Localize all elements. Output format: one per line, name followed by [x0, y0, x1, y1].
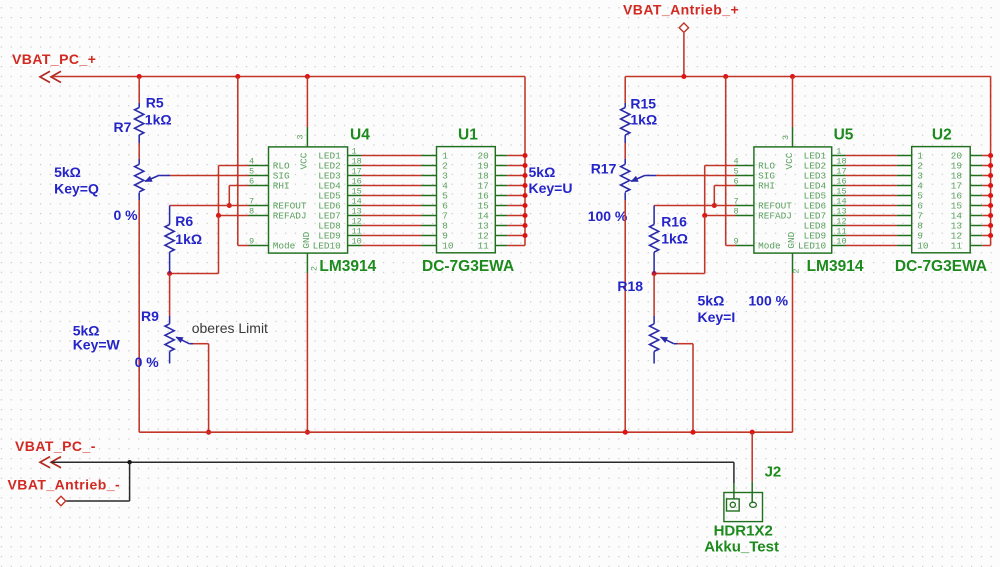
resistor R15 — [624, 103, 626, 108]
junction R5 top — [137, 74, 142, 79]
svg-text:10: 10 — [352, 237, 362, 247]
wires U1 to right bus — [507, 155, 525, 157]
svg-text:GND: GND — [786, 231, 797, 248]
R17 wiper — [631, 176, 644, 182]
wires U2 to right edge bus — [982, 155, 990, 157]
svg-text:Mode: Mode — [273, 241, 296, 252]
svg-text:Key=W: Key=W — [73, 337, 121, 353]
svg-text:3: 3 — [296, 134, 306, 139]
wire VBAT_Antrieb_+ drop — [683, 33, 685, 77]
wire RLO-REFADJ vertical right — [704, 166, 706, 216]
wire rail to R15 — [624, 77, 626, 104]
wire SIG net right — [656, 175, 736, 177]
wire rail to R5 — [138, 77, 140, 104]
svg-text:R9: R9 — [141, 308, 159, 324]
wire R9 wiper to bus — [193, 343, 209, 345]
svg-text:10: 10 — [442, 241, 454, 252]
wire U2 right bus — [990, 77, 992, 246]
svg-text:2: 2 — [792, 268, 802, 273]
J2 pin 1 stub — [733, 483, 735, 499]
display U1 box — [437, 147, 496, 253]
R7 wiper — [145, 176, 158, 182]
bottom bus wire — [139, 431, 792, 433]
svg-text:8: 8 — [734, 207, 739, 217]
svg-text:16: 16 — [352, 177, 362, 187]
potentiometer R7 — [138, 159, 140, 164]
svg-text:4: 4 — [734, 157, 739, 167]
U2 left pin stubs — [897, 155, 912, 157]
wire RHI-REFOUT vertical right — [713, 186, 715, 206]
R9 wiper — [176, 337, 189, 344]
svg-text:R6: R6 — [175, 213, 193, 229]
wire R16 to R18 — [653, 274, 655, 317]
junction Antrieb drop — [681, 74, 686, 79]
junction R9 wiper at bus — [206, 430, 211, 435]
svg-text:4: 4 — [249, 157, 254, 167]
svg-text:15: 15 — [836, 187, 846, 197]
J2 pin2 pad — [750, 502, 757, 507]
wire R5 to R7 — [138, 143, 140, 159]
svg-text:R18: R18 — [617, 278, 643, 294]
wire RLO to REFADJ vertical — [218, 166, 220, 216]
wire VBAT_PC_- black — [51, 461, 734, 463]
svg-text:VBAT_Antrieb_-: VBAT_Antrieb_- — [8, 477, 121, 493]
wire REFOUT net — [170, 205, 249, 207]
wire R18 wiper to bus — [678, 343, 694, 345]
wire SIG net — [170, 175, 249, 177]
svg-text:R5: R5 — [146, 95, 164, 111]
wire RLO net right — [705, 165, 736, 167]
svg-text:17: 17 — [836, 167, 846, 177]
svg-text:VBAT_PC_-: VBAT_PC_- — [15, 438, 96, 454]
svg-text:9: 9 — [734, 237, 739, 247]
U5 VCC pin stub — [792, 77, 794, 128]
svg-text:8: 8 — [249, 207, 254, 217]
svg-text:5: 5 — [734, 167, 739, 177]
svg-text:7: 7 — [249, 197, 254, 207]
svg-text:J2: J2 — [765, 463, 782, 480]
svg-text:5kΩ: 5kΩ — [54, 164, 81, 180]
wire RHI net horizontal — [229, 185, 248, 187]
svg-text:U1: U1 — [458, 127, 478, 144]
svg-text:R17: R17 — [591, 161, 617, 177]
svg-text:1: 1 — [836, 147, 841, 157]
svg-text:1: 1 — [352, 147, 357, 157]
svg-text:5kΩ: 5kΩ — [529, 164, 556, 180]
svg-text:16: 16 — [836, 177, 846, 187]
wire rail to Mode right — [725, 77, 727, 246]
junction VCC branch left — [305, 74, 310, 79]
svg-text:12: 12 — [836, 217, 846, 227]
svg-text:15: 15 — [352, 187, 362, 197]
wire REFADJ net horizontal — [219, 215, 249, 217]
U4 GND pin stub — [306, 253, 308, 273]
svg-text:10: 10 — [836, 237, 846, 247]
wire VBAT_PC_+ top rail — [51, 76, 525, 78]
junction RLO-REFADJ — [216, 213, 221, 218]
wires U4 to U1 — [362, 155, 422, 157]
svg-text:5: 5 — [249, 167, 254, 177]
svg-text:0 %: 0 % — [114, 207, 139, 223]
svg-text:3: 3 — [781, 135, 791, 140]
svg-text:14: 14 — [836, 197, 846, 207]
junction RLO-REFADJ right — [702, 213, 707, 218]
op-amp U5 LM3914 box — [754, 147, 832, 253]
resistor R6 — [169, 206, 171, 225]
svg-text:Key=I: Key=I — [698, 309, 736, 325]
svg-text:U2: U2 — [932, 127, 952, 144]
off-page connector VBAT_Antrieb_+ — [679, 23, 688, 32]
U4 VCC pin stub — [306, 77, 308, 128]
wire R7 bottom to bottom bus — [138, 200, 140, 432]
wire R6 bottom to R9 — [169, 274, 171, 317]
junction RHI-REFOUT right — [712, 203, 717, 208]
svg-text:17: 17 — [352, 167, 362, 177]
junction RHI-REFOUT — [227, 203, 232, 208]
J2 pin1 circle — [730, 502, 735, 507]
svg-text:R15: R15 — [630, 96, 656, 112]
svg-text:7: 7 — [734, 197, 739, 207]
svg-text:13: 13 — [836, 207, 846, 217]
potentiometer R18 — [653, 316, 655, 324]
svg-text:100 %: 100 % — [748, 293, 788, 309]
svg-text:R7: R7 — [114, 119, 132, 135]
svg-text:GND: GND — [301, 231, 312, 248]
U1 left pin stubs — [422, 155, 437, 157]
U4 left pin stubs — [249, 165, 269, 167]
R18 wiper — [661, 337, 674, 344]
op-amp U4 LM3914 box — [269, 147, 348, 253]
off-page connector VBAT_PC_+ — [40, 71, 50, 82]
svg-text:11: 11 — [352, 227, 362, 237]
resistor R16 — [653, 206, 655, 225]
junction Mode branch right — [723, 74, 728, 79]
wire RHI net right — [714, 185, 735, 187]
svg-text:18: 18 — [836, 157, 846, 167]
junction VCC branch right — [790, 74, 795, 79]
junction Mode branch left — [235, 74, 240, 79]
wire VBAT_Antrieb_+ rail — [625, 76, 990, 78]
svg-text:U4: U4 — [350, 127, 370, 144]
svg-text:11: 11 — [478, 241, 490, 252]
svg-text:0 %: 0 % — [135, 354, 160, 370]
svg-text:VBAT_Antrieb_+: VBAT_Antrieb_+ — [623, 1, 739, 17]
svg-text:Akku_Test: Akku_Test — [704, 539, 779, 556]
svg-text:1kΩ: 1kΩ — [630, 112, 657, 128]
wire RLO net horizontal — [219, 165, 249, 167]
wire R17 bottom to bus — [624, 200, 626, 432]
potentiometer R9 — [169, 316, 171, 324]
svg-text:LED10: LED10 — [313, 241, 342, 252]
wire bus to J2 — [751, 432, 753, 481]
svg-text:VCC: VCC — [298, 152, 309, 169]
svg-text:14: 14 — [352, 197, 362, 207]
svg-text:9: 9 — [249, 237, 254, 247]
svg-text:11: 11 — [836, 227, 846, 237]
svg-text:REFADJ: REFADJ — [758, 211, 792, 222]
svg-text:1kΩ: 1kΩ — [175, 231, 202, 247]
resistor R5 — [138, 103, 140, 108]
U5 left pin stubs — [736, 165, 754, 167]
svg-text:LM3914: LM3914 — [319, 258, 376, 275]
off-page connector VBAT_PC_- — [40, 457, 50, 468]
svg-text:oberes Limit: oberes Limit — [192, 320, 268, 336]
junction R6 bottom — [167, 271, 172, 276]
svg-text:Key=Q: Key=Q — [54, 181, 99, 197]
wire rail to Mode vertical — [237, 77, 239, 246]
svg-text:RHI: RHI — [273, 181, 290, 192]
J2 pin 2 stub — [751, 481, 753, 502]
svg-text:100 %: 100 % — [588, 208, 628, 224]
junctions U1 right bus — [522, 153, 527, 158]
svg-text:18: 18 — [352, 157, 362, 167]
U4 right pin stubs — [348, 155, 362, 157]
svg-text:LED10: LED10 — [798, 241, 827, 252]
wire black to J2 pin1 — [733, 462, 735, 483]
U5 right pin stubs — [832, 155, 846, 157]
svg-text:U5: U5 — [834, 127, 854, 144]
wire R15 to R17 — [624, 143, 626, 159]
junction R18 wiper at bus — [690, 430, 695, 435]
U5 GND pin stub — [792, 253, 794, 273]
svg-text:12: 12 — [352, 217, 362, 227]
svg-text:11: 11 — [951, 241, 963, 252]
svg-text:2: 2 — [310, 266, 320, 271]
junctions U2 right bus — [988, 153, 993, 158]
junction U4 GND at bus — [305, 430, 310, 435]
svg-text:Key=U: Key=U — [529, 180, 573, 196]
wire U1 right bus — [524, 77, 526, 246]
potentiometer R17 — [624, 159, 626, 164]
wire REFADJ down — [218, 216, 220, 274]
junction J2 branch — [750, 430, 755, 435]
U1 right pin stubs — [495, 155, 507, 157]
J2 pin1 square — [727, 499, 740, 511]
wire REFADJ to R16 bottom — [654, 273, 705, 275]
wire REFADJ to R6 bottom — [170, 273, 219, 275]
junction R16 bottom — [652, 271, 657, 276]
svg-text:HDR1X2: HDR1X2 — [714, 523, 773, 540]
wire RHI to REFOUT vertical — [228, 186, 230, 206]
svg-text:R16: R16 — [661, 214, 687, 230]
svg-text:REFADJ: REFADJ — [273, 211, 307, 222]
junction VBAT negative — [127, 460, 131, 464]
wire REFADJ net right — [705, 215, 736, 217]
svg-text:13: 13 — [352, 207, 362, 217]
svg-text:6: 6 — [249, 177, 254, 187]
svg-text:10: 10 — [917, 241, 929, 252]
svg-text:RHI: RHI — [758, 181, 775, 192]
svg-text:LM3914: LM3914 — [807, 258, 864, 275]
wire REFADJ down right — [704, 216, 706, 274]
svg-text:VCC: VCC — [784, 152, 795, 169]
wires U5 to U2 — [846, 155, 897, 157]
svg-text:Mode: Mode — [758, 241, 781, 252]
junction R17 at bus — [623, 430, 628, 435]
svg-text:1kΩ: 1kΩ — [145, 112, 172, 128]
svg-text:6: 6 — [734, 177, 739, 187]
display U2 box — [912, 147, 971, 253]
wire Mode horizontal — [238, 245, 249, 247]
svg-text:DC-7G3EWA: DC-7G3EWA — [895, 258, 987, 275]
off-page connector VBAT_Antrieb_- — [56, 496, 65, 505]
svg-text:5kΩ: 5kΩ — [698, 293, 725, 309]
svg-text:1kΩ: 1kΩ — [661, 231, 688, 247]
wire VBAT_Antrieb_- black — [66, 500, 129, 502]
wire REFOUT net right — [654, 205, 735, 207]
svg-text:DC-7G3EWA: DC-7G3EWA — [422, 258, 514, 275]
U2 right pin stubs — [970, 155, 982, 157]
connector J2 HDR1X2 box — [724, 493, 763, 522]
svg-text:VBAT_PC_+: VBAT_PC_+ — [12, 51, 96, 67]
